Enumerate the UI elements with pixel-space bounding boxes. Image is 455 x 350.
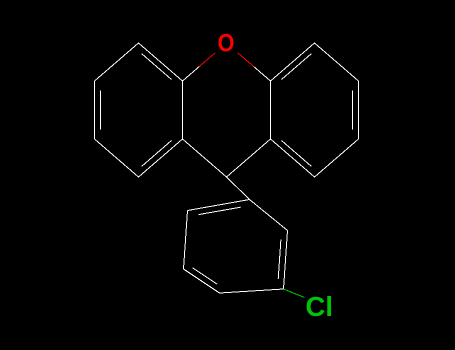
left ring left edge — [94, 81, 96, 139]
central ring bottom-right edge — [227, 139, 271, 177]
right ring bottom-left edge — [271, 139, 315, 177]
phenyl edge P5-P6 — [184, 211, 188, 270]
left ring bottom-right edge — [139, 139, 183, 177]
central ring right edge — [270, 81, 272, 139]
central ring bottom-left edge — [183, 139, 227, 177]
phenyl edge P2-P3 — [284, 231, 288, 290]
atom label O — [218, 29, 235, 57]
phenyl edge P4-P5 — [184, 269, 220, 293]
bond C-Cl (green) — [284, 289, 305, 298]
svg-text:Cl: Cl — [306, 291, 333, 322]
right ring bottom-right edge — [315, 139, 359, 177]
phenyl edge P1-P2 — [250, 200, 288, 231]
phenyl edge P3-P4 — [220, 289, 284, 293]
phenyl edge P6-P1 — [188, 200, 250, 211]
svg-text:O: O — [218, 29, 235, 57]
phenyl inner double P2-P3 — [278, 240, 281, 280]
left ring left inner double — [100, 90, 102, 129]
atom label Cl — [306, 291, 333, 322]
right ring bottom-left inner double — [282, 141, 312, 167]
o-bond left (red/white) — [199, 53, 215, 67]
left ring top-left edge — [95, 43, 139, 81]
central ring left edge — [182, 81, 184, 139]
left ring top-right inner double — [142, 54, 172, 80]
right ring top-left edge — [271, 43, 315, 81]
bond C9-phenyl — [227, 177, 250, 200]
right ring top-right edge — [315, 43, 359, 81]
right ring right inner double — [352, 90, 354, 129]
o-bond right (red/white) — [238, 53, 254, 67]
right ring right edge — [358, 81, 360, 139]
right ring top-left inner double — [282, 54, 312, 80]
left ring bottom-left edge — [95, 139, 139, 177]
phenyl inner double P6-P1 — [199, 207, 241, 214]
left ring bottom-right inner double — [142, 141, 172, 167]
left ring top-right edge — [139, 43, 183, 81]
phenyl inner double P4-P5 — [193, 268, 218, 284]
